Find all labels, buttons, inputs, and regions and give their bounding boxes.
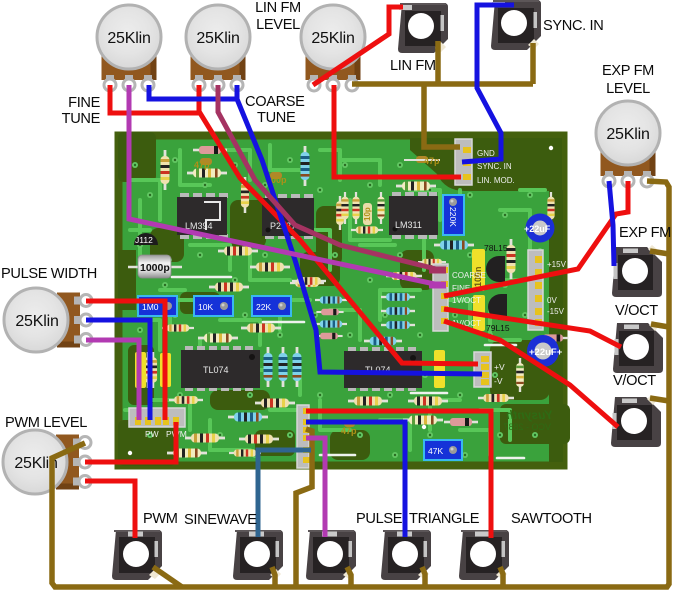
jack PULSE	[306, 530, 356, 580]
regulator 79L15	[486, 294, 510, 333]
svg-text:LEVEL: LEVEL	[256, 17, 300, 33]
svg-text:J112: J112	[135, 235, 153, 245]
wire brown stub to GND pin	[424, 84, 460, 147]
svg-text:47p: 47p	[341, 426, 357, 436]
IC TL074 right	[344, 347, 422, 391]
svg-text:PWM LEVEL: PWM LEVEL	[5, 415, 87, 431]
jack LIN FM	[398, 3, 448, 53]
svg-text:25Klin: 25Klin	[606, 126, 649, 143]
wire red FINE/COARSE pots to +V pin	[110, 85, 478, 364]
svg-text:FINE: FINE	[68, 95, 100, 111]
wire purple PULSE from board pin to jack	[306, 438, 325, 537]
wire red PULSE WIDTH pot lug1 to PW pin	[86, 301, 165, 420]
electrolytic 22uF top	[524, 214, 555, 243]
wire red V/OCT pin to V/OCT jack 2	[444, 321, 618, 427]
PCB light-green traces	[125, 145, 545, 455]
svg-text:220K: 220K	[448, 207, 458, 227]
svg-text:TUNE: TUNE	[62, 111, 101, 127]
PCB board	[115, 132, 567, 469]
wire red COARSE pot lug1 branch	[197, 85, 202, 115]
wire brown stub SAWTOOTH jack ground	[500, 567, 503, 587]
potentiometer PULSE WIDTH 25Klin	[4, 288, 92, 352]
electrolytic 22uF bottom	[527, 335, 563, 367]
wire brown stub SINEWAVE jack ground	[272, 567, 275, 587]
svg-text:TUNE: TUNE	[257, 110, 296, 126]
svg-text:+15V: +15V	[547, 260, 567, 269]
PCB dark ground-pour regions	[118, 132, 570, 466]
svg-text:10p: 10p	[363, 207, 372, 221]
svg-text:TRIANGLE: TRIANGLE	[409, 511, 480, 527]
trimmer 10K	[194, 296, 233, 316]
svg-text:1000p: 1000p	[140, 262, 170, 274]
jack SINEWAVE	[233, 530, 283, 580]
svg-text:TL074: TL074	[203, 365, 229, 375]
trimmer 22K	[252, 296, 291, 316]
jack SYNC. IN	[491, 0, 541, 50]
svg-text:LIN FM: LIN FM	[255, 0, 301, 16]
wire red PWM LEVEL pot lug2 to PWM pin	[85, 422, 176, 462]
svg-text:SYNC. IN: SYNC. IN	[477, 162, 512, 171]
wire steelblue SINEWAVE from board pin to jack	[258, 450, 311, 537]
potentiometer EXP FM LEVEL 25Klin	[596, 101, 660, 187]
svg-text:V/OCT: V/OCT	[615, 303, 658, 319]
wire blue COARSE pot lug3 branch	[235, 85, 240, 100]
wire red V/OCT pin to V/OCT jack 1	[444, 309, 621, 347]
white jumper wires on board	[172, 277, 524, 458]
wire red LIN FM jack to pot3 lug1	[313, 7, 403, 85]
svg-text:SYNC. IN: SYNC. IN	[543, 18, 603, 34]
regulator 78L15	[484, 243, 508, 282]
svg-text:V/OCT: V/OCT	[613, 373, 656, 389]
svg-text:47p: 47p	[424, 156, 440, 166]
wire red PWM LEVEL pot lug3 to PWM jack	[85, 481, 135, 538]
jack V/OCT 1	[613, 321, 663, 373]
svg-text:PWM: PWM	[143, 511, 178, 527]
pin stubs at connector	[429, 270, 446, 285]
wire brown stub PWM jack ground	[153, 567, 182, 587]
wire red EXP FM pin to pot4 lug2	[444, 181, 628, 296]
svg-text:PW: PW	[145, 429, 159, 439]
potentiometer PWM LEVEL 25Klin	[3, 430, 91, 494]
svg-text:22K: 22K	[256, 302, 271, 312]
svg-text:EXP FM: EXP FM	[619, 225, 671, 241]
wire blue EXP FM LEVEL pot lug1 to EXP FM jack	[609, 181, 614, 266]
trimmer (hidden) left	[138, 296, 177, 316]
wire brown stub TRIANGLE jack ground	[422, 567, 425, 587]
trimmer 220K	[443, 195, 464, 235]
svg-text:+V: +V	[494, 362, 505, 372]
connector PSU +15V/0V/-15V	[528, 250, 567, 330]
wire blue TRIANGLE from board pin to jack	[306, 422, 405, 537]
blue wires	[86, 5, 614, 537]
svg-text:25Klin: 25Klin	[107, 30, 150, 47]
svg-text:47K: 47K	[428, 446, 443, 456]
IC LM311	[389, 192, 438, 239]
connector PW/PWM	[129, 408, 187, 439]
wire brown stub to LIN FM jack ground	[435, 41, 441, 84]
connector COARSE/FINE/V-OCT	[433, 264, 486, 331]
wire red pot3 lug2 to LIN.MOD pin	[334, 85, 461, 177]
svg-text:LIN FM: LIN FM	[390, 58, 436, 74]
svg-text:PULSE: PULSE	[356, 511, 403, 527]
svg-text:25Klin: 25Klin	[15, 313, 58, 330]
wire red SAWTOOTH from board pin to jack	[306, 411, 491, 538]
IC P2137	[262, 194, 314, 239]
wire brown stub PULSE jack ground	[347, 567, 351, 587]
resistors (beige & cyan)	[144, 146, 568, 458]
wire brown stub EXP FM jack ground	[650, 251, 669, 254]
jack SAWTOOTH	[459, 530, 509, 580]
wire brown stub to SYNC jack ground	[530, 43, 536, 84]
svg-text:SAWTOOTH: SAWTOOTH	[511, 511, 592, 527]
svg-text:25Klin: 25Klin	[196, 30, 239, 47]
potentiometer LIN FM LEVEL 25Klin	[301, 5, 365, 91]
svg-text:SINEWAVE: SINEWAVE	[184, 512, 257, 528]
IC TL074 left	[181, 346, 260, 391]
PCB pads	[132, 157, 538, 458]
wire purple FINE pot lug2 to FINE pin	[129, 85, 444, 286]
red wires	[85, 7, 628, 538]
mounting holes	[128, 144, 553, 455]
purple wires	[86, 85, 444, 537]
svg-text:EXP FM: EXP FM	[602, 63, 654, 79]
wire blue FINE/COARSE pots lug3 to -V pin	[149, 85, 482, 374]
svg-text:LIN. MOD.: LIN. MOD.	[477, 176, 515, 185]
connector bottom-center	[297, 405, 310, 468]
transistor J112	[134, 233, 158, 245]
wire brown stub V/OCT2 ground	[650, 398, 669, 401]
svg-text:Yusynth: Yusynth	[506, 408, 553, 422]
svg-text:-V: -V	[494, 376, 503, 386]
svg-text:GND: GND	[477, 149, 495, 158]
IC LM394	[177, 193, 228, 239]
wire blue PULSE WIDTH pot lug2 to PW pin	[86, 320, 150, 420]
wire brown right-side ground bus and bottom bus	[52, 181, 669, 587]
svg-text:PULSE WIDTH: PULSE WIDTH	[1, 266, 97, 282]
svg-text:25Klin: 25Klin	[311, 30, 354, 47]
svg-text:+22uF+: +22uF+	[529, 347, 563, 358]
jack PWM	[112, 530, 162, 580]
wire purple PULSE WIDTH pot lug3 to PW pin	[86, 340, 139, 420]
svg-text:10K: 10K	[198, 302, 213, 312]
wire maroon COARSE pot lug2 to COARSE pin	[218, 85, 444, 271]
svg-text:LM311: LM311	[395, 220, 422, 230]
jack TRIANGLE	[381, 530, 431, 580]
svg-text:COARSE: COARSE	[452, 271, 486, 280]
Yusynth mirrored logo	[503, 408, 553, 432]
connector +V/-V	[474, 352, 505, 387]
wire blue SYNC.IN jack to board pin	[462, 5, 514, 162]
svg-text:COARSE: COARSE	[245, 94, 305, 110]
potentiometer COARSE TUNE 25Klin	[186, 5, 250, 91]
svg-text:78L15: 78L15	[484, 243, 508, 253]
jack V/OCT 2	[611, 395, 661, 447]
small caps & labels on board	[135, 156, 440, 436]
wire brown board ground to bottom bus	[296, 429, 312, 587]
svg-text:-15V: -15V	[547, 307, 565, 316]
wire brown stub V/OCT1 ground	[651, 324, 669, 327]
svg-text:0V: 0V	[547, 296, 557, 305]
svg-text:VCO - 2887: VCO - 2887	[503, 422, 551, 432]
gray cylinder capacitor 1000p	[128, 255, 182, 278]
svg-text:47p: 47p	[194, 160, 210, 170]
jack EXP FM	[612, 245, 662, 297]
svg-text:+22uF: +22uF	[524, 224, 551, 234]
svg-text:1V/OCT: 1V/OCT	[452, 296, 481, 305]
trimmer 47K	[424, 440, 462, 460]
yellow box caps 100n / 100	[434, 249, 485, 388]
svg-text:79L15: 79L15	[486, 323, 510, 333]
svg-text:LEVEL: LEVEL	[606, 81, 650, 97]
connector top (GND / SYNC IN / LIN.MOD)	[455, 139, 515, 185]
potentiometer FINE TUNE 25Klin	[97, 5, 161, 91]
